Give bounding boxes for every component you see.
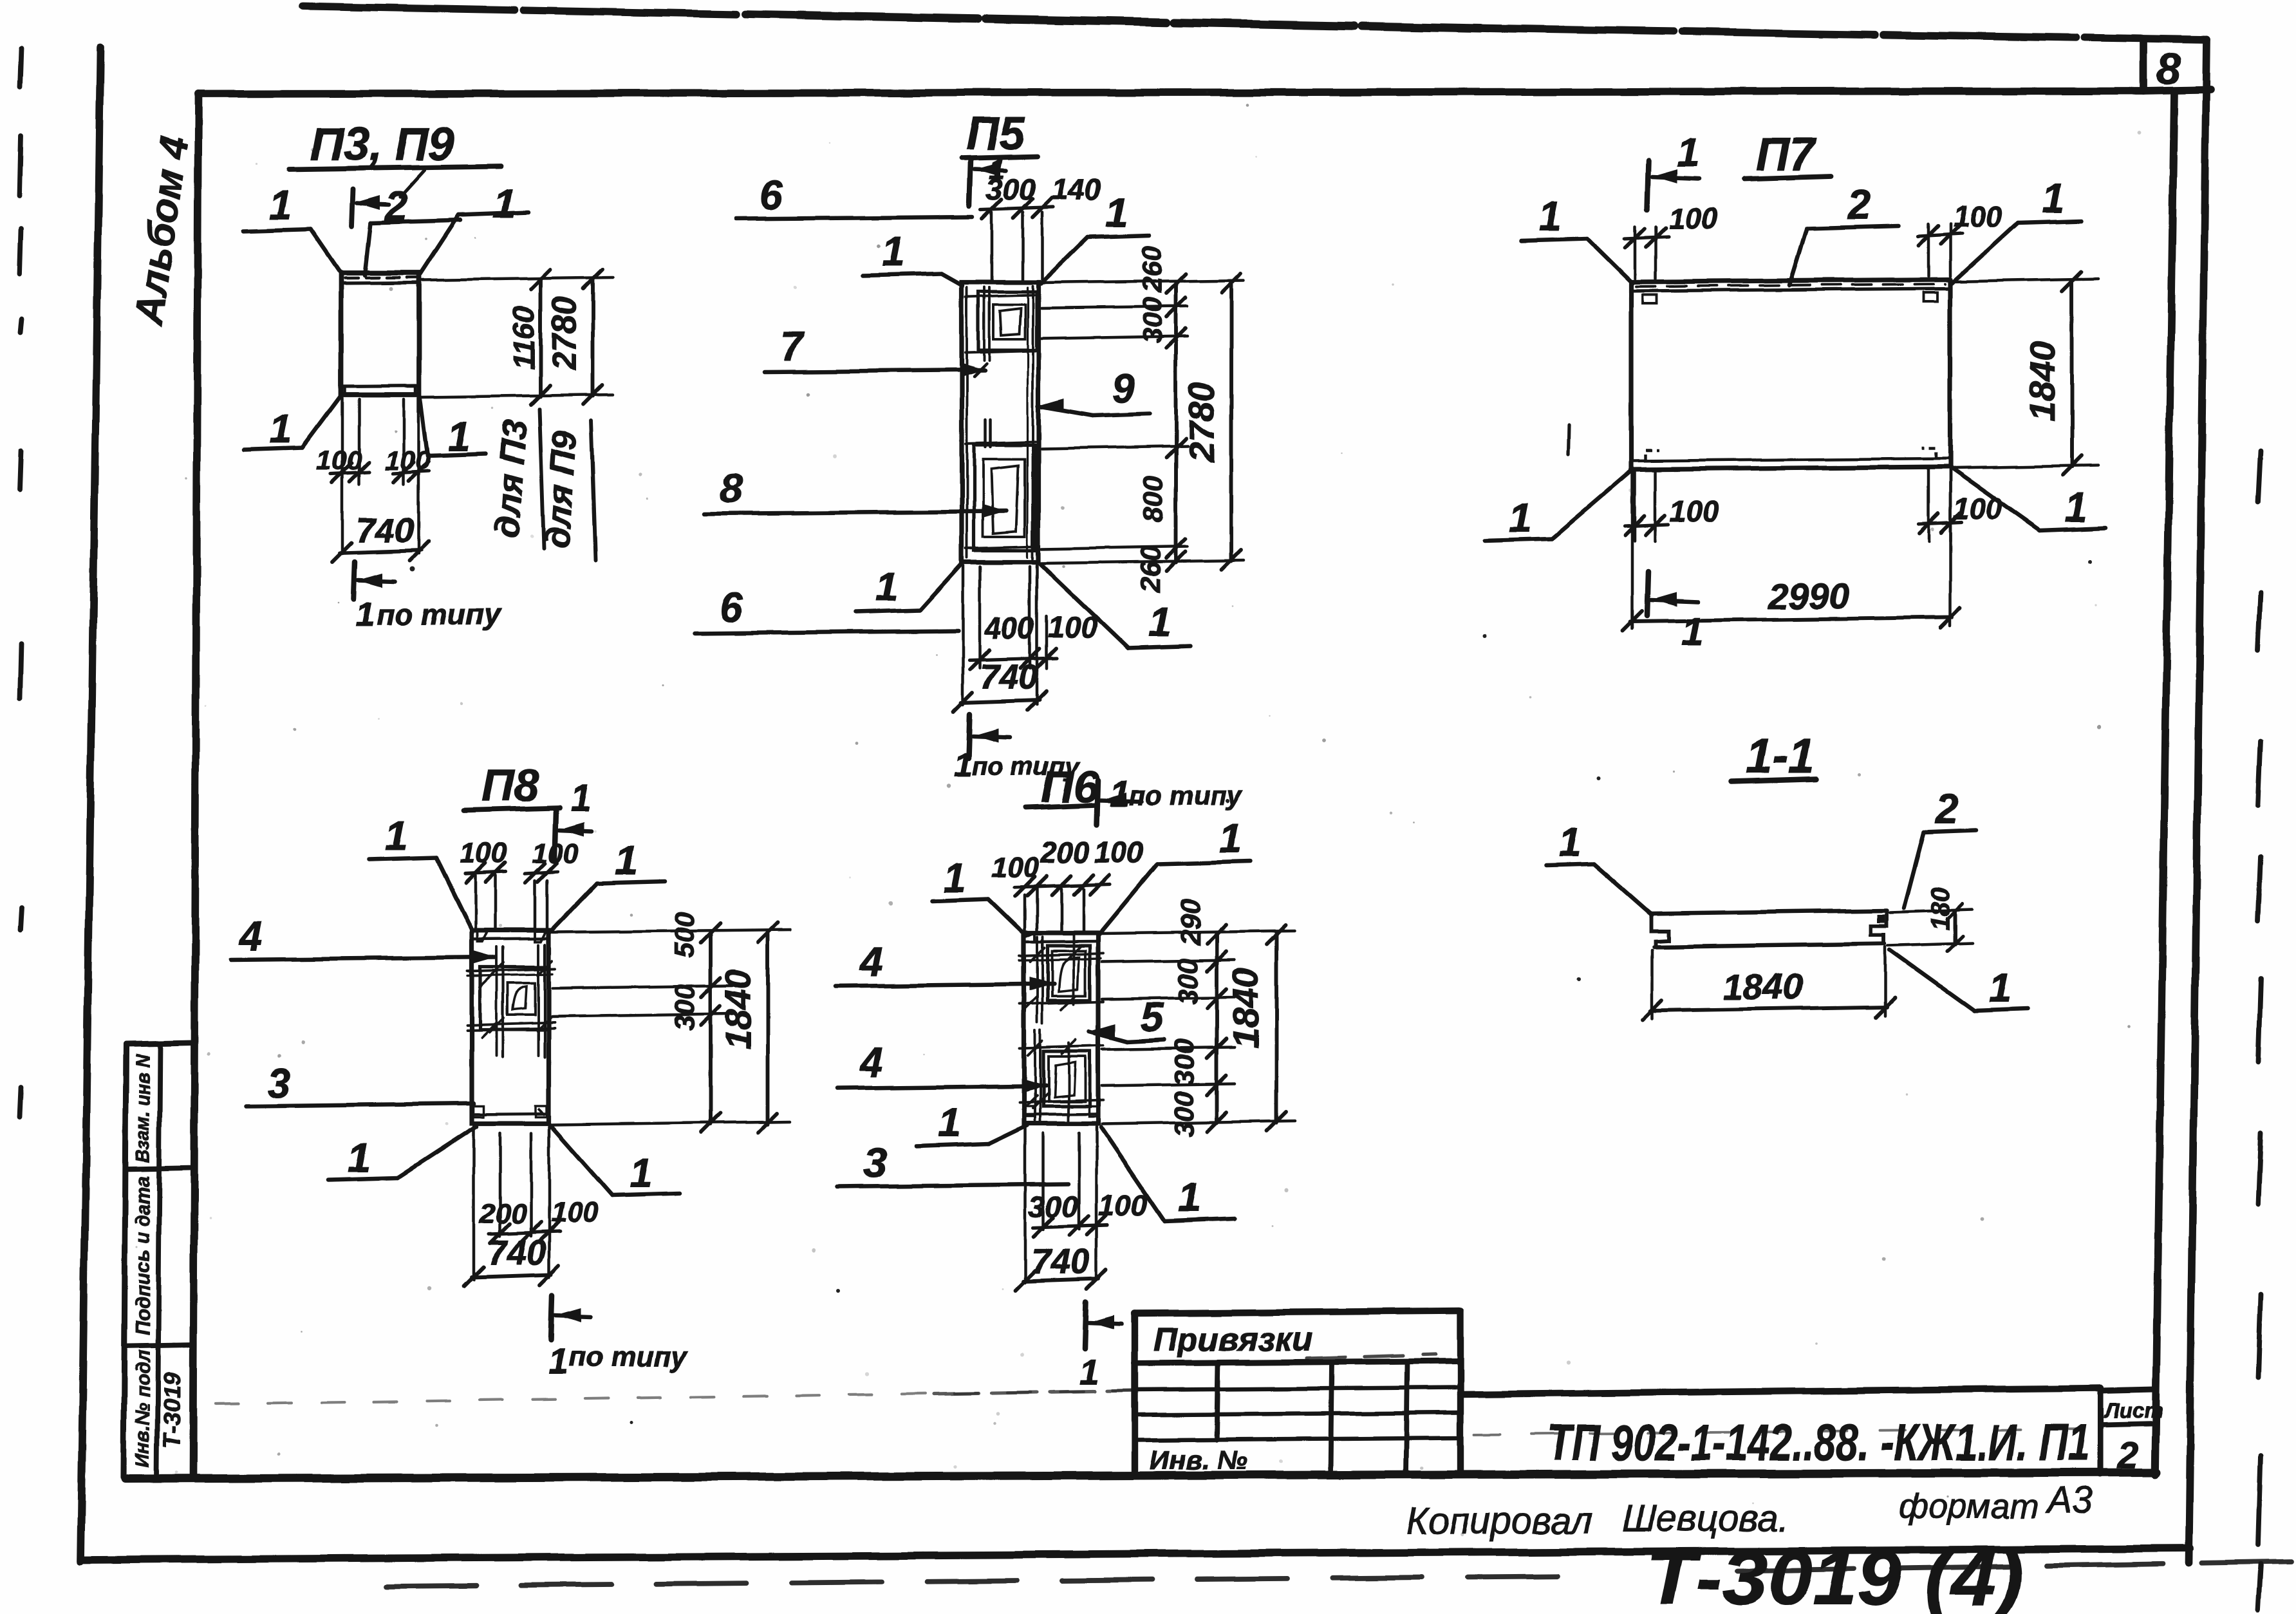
svg-text:400: 400 (984, 612, 1034, 645)
svg-text:1: 1 (1148, 599, 1171, 645)
svg-text:1: 1 (944, 855, 967, 901)
svg-text:1: 1 (385, 812, 408, 859)
svg-text:формат: формат (1899, 1487, 2039, 1526)
svg-text:740: 740 (356, 511, 414, 550)
svg-text:2990: 2990 (1768, 576, 1849, 616)
svg-text:100: 100 (1670, 494, 1719, 528)
svg-text:740: 740 (1031, 1243, 1089, 1281)
svg-text:100: 100 (1048, 610, 1097, 644)
svg-text:100: 100 (1098, 1188, 1148, 1222)
svg-text:260: 260 (1137, 246, 1168, 293)
svg-text:1: 1 (1538, 193, 1562, 239)
svg-text:740: 740 (980, 658, 1038, 697)
svg-text:Т-3019 (4): Т-3019 (4) (1647, 1535, 2023, 1614)
svg-text:П7: П7 (1756, 129, 1817, 180)
svg-text:1: 1 (954, 747, 973, 784)
svg-text:1: 1 (548, 1341, 568, 1382)
svg-text:4: 4 (859, 939, 883, 985)
svg-text:1: 1 (630, 1150, 653, 1196)
svg-text:ТП 902-1-142..88. -КЖ1.И. П1: ТП 902-1-142..88. -КЖ1.И. П1 (1547, 1414, 2089, 1471)
svg-text:3: 3 (864, 1140, 887, 1186)
svg-text:100: 100 (991, 852, 1039, 883)
svg-text:1840: 1840 (718, 970, 758, 1050)
svg-text:100: 100 (1953, 200, 2002, 233)
svg-text:200: 200 (1040, 836, 1090, 869)
svg-text:по типу: по типу (377, 597, 501, 631)
svg-text:1840: 1840 (2022, 341, 2062, 422)
svg-text:Инв. №: Инв. № (1150, 1445, 1247, 1475)
svg-text:100: 100 (385, 445, 430, 475)
svg-text:Копировал: Копировал (1406, 1500, 1592, 1542)
svg-text:8: 8 (2156, 44, 2181, 93)
svg-text:Подпись и дата: Подпись и дата (131, 1176, 154, 1335)
svg-text:1: 1 (1105, 189, 1128, 236)
svg-text:140: 140 (1052, 173, 1101, 206)
svg-text:1: 1 (615, 837, 639, 883)
svg-text:180: 180 (1927, 888, 1955, 931)
svg-text:для П9: для П9 (538, 430, 585, 550)
svg-text:1: 1 (1681, 610, 1703, 654)
svg-text:П3, П9: П3, П9 (310, 118, 454, 170)
svg-text:1840: 1840 (1225, 968, 1265, 1049)
svg-text:Лист: Лист (2104, 1398, 2163, 1422)
svg-text:1: 1 (1219, 815, 1242, 861)
svg-text:260: 260 (1135, 546, 1166, 593)
svg-text:1: 1 (269, 182, 292, 228)
svg-text:А3: А3 (2045, 1479, 2093, 1521)
svg-text:1: 1 (2064, 484, 2087, 530)
svg-text:для П3: для П3 (488, 419, 535, 539)
svg-text:по типу: по типу (1129, 780, 1244, 811)
svg-text:6: 6 (760, 172, 783, 218)
svg-text:2: 2 (2117, 1434, 2138, 1476)
svg-text:100: 100 (1094, 836, 1144, 869)
svg-text:300: 300 (669, 984, 700, 1031)
svg-text:300: 300 (986, 173, 1036, 206)
svg-text:1: 1 (1110, 773, 1130, 814)
svg-text:1: 1 (269, 406, 292, 452)
svg-text:100: 100 (532, 838, 579, 869)
svg-text:290: 290 (1175, 899, 1206, 946)
svg-text:100: 100 (1668, 202, 1718, 235)
svg-text:1840: 1840 (1722, 966, 1803, 1007)
svg-text:6: 6 (720, 585, 743, 631)
svg-text:1: 1 (1677, 131, 1699, 175)
svg-text:300: 300 (1173, 958, 1204, 1004)
svg-text:300: 300 (1169, 1091, 1200, 1137)
svg-text:1: 1 (875, 563, 899, 610)
svg-text:Шевцова.: Шевцова. (1622, 1497, 1789, 1539)
svg-text:100: 100 (551, 1197, 599, 1228)
svg-text:5: 5 (1141, 994, 1164, 1040)
svg-text:П8: П8 (481, 760, 539, 811)
svg-text:Т-3019: Т-3019 (159, 1372, 185, 1448)
svg-text:1: 1 (938, 1100, 962, 1146)
svg-text:1: 1 (493, 180, 516, 227)
svg-text:300: 300 (1029, 1190, 1078, 1223)
svg-text:2: 2 (1847, 182, 1871, 228)
svg-text:1: 1 (1178, 1174, 1201, 1221)
svg-text:1160: 1160 (507, 306, 541, 370)
svg-text:740: 740 (488, 1234, 546, 1272)
svg-text:2780: 2780 (546, 296, 583, 371)
svg-text:Взам. инв N: Взам. инв N (131, 1054, 154, 1163)
svg-text:1: 1 (355, 595, 375, 633)
svg-text:1: 1 (1989, 964, 2012, 1011)
svg-text:3: 3 (268, 1060, 291, 1106)
svg-text:4: 4 (238, 913, 263, 959)
svg-text:1: 1 (882, 229, 905, 275)
svg-text:1-1: 1-1 (1746, 729, 1815, 783)
svg-text:по типу: по типу (569, 1341, 689, 1373)
svg-text:300: 300 (1169, 1039, 1200, 1085)
svg-text:500: 500 (669, 912, 700, 958)
svg-text:Привязки: Привязки (1153, 1321, 1312, 1358)
svg-text:9: 9 (1112, 365, 1135, 411)
svg-text:1: 1 (2042, 175, 2065, 221)
svg-text:200: 200 (479, 1198, 527, 1230)
svg-text:1: 1 (1558, 819, 1581, 865)
svg-text:2780: 2780 (1181, 382, 1222, 463)
svg-text:100: 100 (317, 445, 362, 475)
svg-text:Инв.№ подл: Инв.№ подл (131, 1350, 154, 1467)
svg-text:7: 7 (780, 323, 805, 370)
svg-text:8: 8 (720, 465, 743, 511)
svg-text:1: 1 (348, 1134, 371, 1181)
svg-text:4: 4 (859, 1039, 883, 1085)
svg-text:1: 1 (570, 778, 591, 820)
svg-text:300: 300 (1137, 297, 1168, 343)
svg-text:1: 1 (1509, 494, 1532, 541)
svg-text:1: 1 (1079, 1351, 1099, 1392)
svg-text:800: 800 (1138, 476, 1169, 522)
svg-text:100: 100 (460, 838, 507, 869)
svg-text:П5: П5 (966, 108, 1025, 160)
svg-text:2: 2 (1935, 785, 1959, 832)
